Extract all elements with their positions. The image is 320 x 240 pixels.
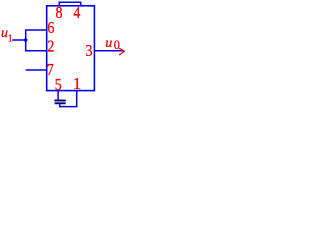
wire pins 6-2 tie bar xyxy=(26,30,47,51)
capacitor C bottom plate xyxy=(55,102,66,104)
svg-text:2: 2 xyxy=(47,38,54,56)
svg-text:7: 7 xyxy=(47,61,54,79)
node junction dot xyxy=(24,38,28,42)
capacitor C top plate xyxy=(54,100,65,102)
arrowhead u0 xyxy=(119,48,124,55)
svg-text:3: 3 xyxy=(85,42,92,60)
wire pin 5 to capacitor xyxy=(57,91,59,100)
svg-text:4: 4 xyxy=(73,4,80,22)
svg-text:8: 8 xyxy=(55,4,62,22)
wire pin 7 stub xyxy=(26,69,47,71)
svg-text:1: 1 xyxy=(8,34,13,45)
svg-text:0: 0 xyxy=(114,38,120,52)
svg-text:1: 1 xyxy=(73,74,81,93)
wire capacitor to pin 1 ground return xyxy=(60,91,77,107)
svg-text:6: 6 xyxy=(47,19,54,37)
op-amp U1 555 timer box xyxy=(47,6,95,91)
wire top supply connecting pin 8 and pin 4 xyxy=(59,2,80,6)
wire input u1 feed xyxy=(12,39,26,41)
svg-text:u: u xyxy=(105,36,112,51)
wire output pin 3 xyxy=(94,50,124,52)
